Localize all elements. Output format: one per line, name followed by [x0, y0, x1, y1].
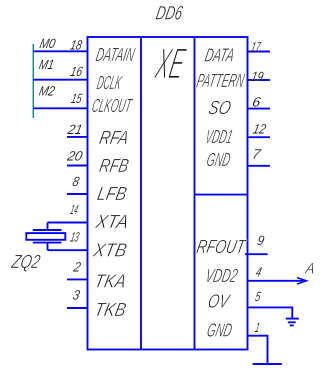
crystal ZQ2 stem top [47, 223, 49, 231]
wire pin 21 RFA [67, 136, 88, 138]
svg-text:M1: M1 [38, 57, 56, 72]
svg-text:ZQ2: ZQ2 [9, 252, 42, 273]
svg-text:PATTERN: PATTERN [195, 71, 246, 92]
svg-text:XTA: XTA [93, 212, 131, 233]
crystal ZQ2 body [26, 233, 65, 240]
svg-text:RFA: RFA [97, 128, 130, 149]
wire pin 6 SO [248, 108, 271, 110]
wire pin 12 VDD1 [248, 136, 271, 138]
IC DD6 right column section divider [195, 194, 248, 196]
bus M [32, 44, 34, 118]
crystal ZQ2 top plate [33, 229, 62, 231]
wire pin 4 VDD2 to A [248, 280, 306, 282]
wire pin 3 TKB [67, 307, 88, 309]
svg-text:TKB: TKB [92, 300, 128, 321]
wire pin 7 GND [248, 165, 271, 167]
IC U-DD6 body outline [88, 37, 248, 350]
svg-text:VDD1: VDD1 [203, 127, 234, 148]
svg-text:XTB: XTB [91, 241, 129, 262]
wire pin 13 XTB [48, 249, 88, 251]
crystal ZQ2 bottom plate [33, 242, 62, 244]
wire pin 14 XTA [48, 222, 88, 224]
svg-text:DATA: DATA [203, 46, 236, 67]
crystal ZQ2 stem bottom [47, 243, 49, 251]
ground bar at pin 1 [253, 363, 282, 365]
wire pin 5 OV [248, 307, 293, 318]
svg-text:DATAIN: DATAIN [94, 45, 136, 66]
wire pin 20 RFB [67, 165, 88, 167]
svg-text:DCLK: DCLK [95, 73, 124, 94]
wire pin 9 RFOUT [245, 253, 268, 255]
svg-text:LFB: LFB [95, 184, 129, 205]
wire pin 15 CLKOUT [33, 107, 87, 109]
wire pin 1 GND [248, 336, 268, 364]
IC DD6 left column divider [140, 37, 142, 350]
wire pin 16 DCLK [33, 79, 87, 81]
wire pin 8 LFB [67, 193, 88, 195]
svg-text:DD6: DD6 [154, 3, 185, 25]
svg-text:RFOUT: RFOUT [195, 237, 248, 258]
svg-text:GND: GND [205, 150, 232, 171]
svg-text:21: 21 [66, 122, 84, 137]
svg-text:TKA: TKA [92, 272, 127, 293]
svg-text:GND: GND [205, 320, 234, 341]
wire pin 2 TKA [67, 278, 88, 280]
wire pin 18 DATAIN [33, 50, 87, 52]
arrowhead to node A [297, 278, 307, 284]
wire pin 17 DATA [248, 51, 271, 53]
svg-text:VDD2: VDD2 [203, 266, 239, 287]
svg-text:RFB: RFB [97, 156, 130, 177]
svg-text:CLKOUT: CLKOUT [90, 96, 134, 117]
IC DD6 right column divider [194, 37, 196, 350]
wire pin 19 PATTERN [248, 79, 271, 81]
ground symbol at pin 5 [286, 318, 299, 320]
svg-text:SO: SO [206, 98, 232, 119]
